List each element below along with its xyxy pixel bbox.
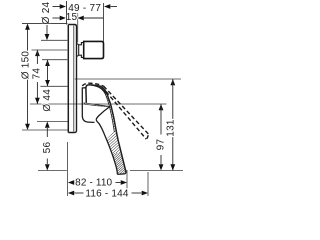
- wire: redraw top extension line y23.5 over halo: [22, 23, 68, 25]
- handle lever outline: [86, 85, 126, 172]
- handle inner band line: [99, 87, 114, 132]
- handle shank hatch band fill: [99, 86, 126, 174]
- node: bottom extension line y130: [22, 129, 68, 131]
- svg-text:Ø 24: Ø 24: [41, 1, 52, 24]
- escutcheon plate back edge: [67, 25, 69, 133]
- handle underside sliver: [84, 103, 110, 107]
- wire: top wall extension line x66.5: [66, 1, 68, 25]
- label diameter 24 pointer: [45, 25, 50, 41]
- dashed raised handle upper edge: [104, 86, 149, 134]
- handle hub: [82, 88, 94, 123]
- node: dashed tip reference line x148: [147, 172, 149, 196]
- valve stem neck: [79, 43, 84, 58]
- valve stem flare: [77, 44, 79, 57]
- dimension 49-77: [53, 4, 118, 9]
- dashed raised handle tip end: [147, 135, 148, 138]
- node: axis extension line y50: [32, 49, 68, 51]
- dimension 116-144: [68, 191, 148, 196]
- node: top extension line y23.5: [22, 23, 68, 25]
- node: wall reference line bottom x66.8: [67, 142, 69, 196]
- dimension 15: [53, 13, 104, 43]
- node: long pivot extension line y104: [30, 103, 167, 105]
- handle tip bottom edge: [117, 172, 126, 174]
- dimension diameter 150 line: [25, 24, 30, 131]
- dimension 131 line: [170, 79, 175, 171]
- dimension diameter 44 outside arrows: [45, 60, 50, 128]
- svg-text:Ø 150: Ø 150: [20, 51, 31, 80]
- dashed raised handle lower edge: [106, 92, 146, 140]
- node: extension line y121.5: [37, 121, 68, 123]
- dimension 82-110: [68, 180, 127, 185]
- cartridge cap: [84, 41, 104, 58]
- handle top shoulder curve: [91, 85, 107, 94]
- svg-text:74: 74: [32, 68, 43, 80]
- svg-text:97: 97: [155, 139, 166, 151]
- handle tip hatched dense: [112, 153, 126, 175]
- handle inner bend edge: [96, 107, 110, 120]
- svg-text:116 - 144: 116 - 144: [85, 188, 129, 199]
- node: extension line y86.3: [40, 85, 67, 87]
- sliver hatch ticks: [95, 104, 107, 107]
- dimension 97 line: [159, 104, 164, 171]
- node: bottom reference line left segment y170.5: [38, 170, 67, 172]
- escutcheon plate outline: [68, 25, 76, 133]
- svg-text:82 - 110: 82 - 110: [75, 177, 112, 188]
- svg-text:131: 131: [166, 119, 177, 137]
- dimension 56 line: [45, 128, 50, 171]
- svg-text:15: 15: [66, 12, 78, 23]
- node: bottom reference line right segment y170.5: [130, 170, 183, 172]
- node: long extension line y78.3 for 131: [75, 78, 181, 80]
- handle shank inner edge: [96, 120, 117, 175]
- wire: right extension line of 49-77 at x103.5: [103, 3, 105, 42]
- escutcheon plate inner line: [73, 26, 75, 132]
- svg-text:Ø 44: Ø 44: [42, 89, 53, 112]
- node: extension line y40.3: [41, 39, 67, 41]
- svg-text:56: 56: [42, 142, 53, 154]
- dashed raised handle top arc: [82, 83, 103, 86]
- node: handle tip reference line x127: [126, 170, 128, 196]
- node: extension line y59.7: [42, 59, 67, 61]
- wire: redraw wall extension line x66.5 over halo: [66, 1, 68, 25]
- dimension 74 line: [35, 50, 40, 104]
